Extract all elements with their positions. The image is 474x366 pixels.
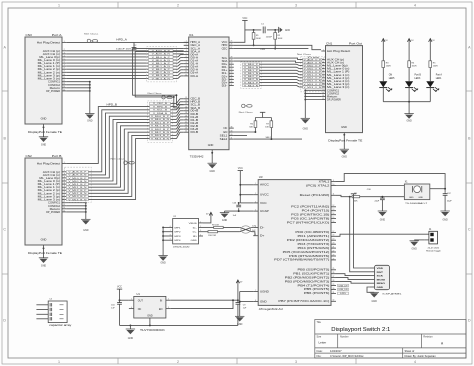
net label V_ML2_P (243, 75, 260, 78)
svg-text:HPD_B: HPD_B (107, 103, 118, 106)
power VCC U3 (238, 167, 243, 170)
svg-text:HPD: HPD (260, 49, 265, 51)
wire HPD_A from CN3 to IC1 (66, 41, 189, 43)
svg-text:D: D (3, 319, 6, 323)
svg-text:6: 6 (170, 226, 171, 228)
ground LEDs (404, 114, 413, 123)
svg-text:V_ML2_A_P: V_ML2_A_P (152, 68, 171, 71)
svg-text:V_ML1_B_P: V_ML1_B_P (151, 123, 170, 125)
net label V_ML1_O_P (303, 70, 323, 73)
svg-text:2: 2 (200, 226, 201, 228)
wire ICSP GND to ground (367, 287, 374, 292)
svg-text:8: 8 (255, 300, 256, 302)
wire MISO from PB3 (336, 282, 370, 284)
svg-text:12: 12 (63, 201, 65, 203)
svg-text:10: 10 (63, 74, 65, 76)
svg-text:V_ML1_P: V_ML1_P (244, 70, 259, 72)
ground Port B config (81, 219, 90, 232)
svg-text:PC4 (PCINT10): PC4 (PCINT10) (302, 210, 330, 213)
svg-text:2: 2 (255, 193, 256, 195)
wire D- to R9 (203, 226, 214, 228)
wire SCL_A drop (133, 49, 184, 105)
svg-text:50K: 50K (249, 127, 253, 129)
ground ICSP (370, 292, 379, 303)
svg-text:3: 3 (255, 201, 256, 203)
wire HPD_B from CN2 (66, 107, 149, 164)
svg-text:4: 4 (186, 50, 187, 52)
wire CN3 GND to ground (43, 124, 45, 137)
svg-text:U3: U3 (259, 175, 263, 179)
wire LED LED1 cathode (429, 88, 431, 102)
ground VCC rail (279, 27, 291, 33)
svg-text:13: 13 (185, 97, 187, 99)
svg-text:150R: 150R (412, 66, 417, 68)
wire CEC from IC1 (234, 48, 309, 50)
wire SEL2 (234, 138, 302, 140)
wire HPD IC1 to CN1 (234, 45, 321, 49)
svg-text:PC2 (PCINT11/AIN2): PC2 (PCINT11/AIN2) (291, 206, 330, 209)
svg-text:9: 9 (170, 239, 171, 241)
connector USB 47625-1020 (168, 216, 203, 248)
svg-text:V_ML0_A_P: V_ML0_A_P (152, 56, 171, 59)
net label V_ML0_O_N (303, 67, 323, 70)
svg-text:UVCC: UVCC (260, 194, 269, 197)
svg-text:2: 2 (177, 4, 179, 8)
svg-text:Reset (PC1/dW): Reset (PC1/dW) (300, 194, 330, 197)
svg-text:2: 2 (186, 44, 187, 46)
svg-text:Title: Title (317, 321, 322, 324)
svg-text:Revision: Revision (423, 336, 433, 339)
svg-text:6: 6 (186, 56, 187, 58)
svg-text:5: 5 (64, 58, 65, 60)
svg-text:D-: D- (260, 226, 265, 229)
svg-text:11: 11 (63, 77, 65, 79)
svg-text:MP4: MP4 (175, 240, 182, 242)
wire IC1 VCC riser (234, 21, 245, 43)
svg-text:10: 10 (333, 184, 335, 186)
svg-text:Net Class: Net Class (297, 53, 312, 56)
svg-text:LED5: LED5 (389, 78, 395, 80)
svg-text:28: 28 (231, 57, 233, 59)
wire VCC rail (245, 29, 261, 31)
harness Port B at IC1 (148, 101, 173, 142)
svg-text:PD2 (RXD1/AIN1/INT2): PD2 (RXD1/AIN1/INT2) (287, 239, 330, 242)
CN3 shield junction (43, 126, 45, 128)
net label V_SCL_B at IC1 (150, 109, 171, 112)
capacitor C37 (443, 194, 448, 196)
power 5V input (236, 280, 243, 283)
wire regulator ground rail (120, 324, 238, 326)
svg-text:31: 31 (333, 292, 335, 294)
svg-text:UGND: UGND (260, 290, 269, 293)
svg-text:V_ML3_O_N: V_ML3_O_N (304, 87, 323, 89)
svg-text:9: 9 (186, 65, 187, 67)
svg-text:R10 15R: R10 15R (208, 235, 216, 237)
svg-text:PB7 (PCINT7/OC.0A/OC.1C): PB7 (PCINT7/OC.0A/OC.1C) (278, 300, 329, 303)
connector CN1 Port Out (321, 41, 362, 132)
svg-text:Displayport Switch 2:1: Displayport Switch 2:1 (331, 327, 390, 333)
svg-text:35: 35 (231, 78, 233, 80)
svg-text:capacitor array: capacitor array (49, 324, 72, 327)
svg-text:D3-B: D3-B (191, 131, 199, 134)
wire SDA to CN1 (234, 61, 303, 62)
svg-text:GND: GND (41, 117, 47, 121)
svg-text:V_ML1_B_N: V_ML1_B_N (68, 187, 87, 189)
wire R1 stem (253, 30, 255, 33)
net label V_ML3_A_N (149, 77, 174, 80)
junction VCC rail R2 (274, 29, 276, 31)
net label V_ML0_A_N (149, 59, 174, 62)
wire CN2 CONFIG1/CONFIG2/Return to ground (66, 202, 87, 220)
svg-text:V_ML1_A_P: V_ML1_A_P (152, 62, 171, 65)
power VCC U1 output (117, 286, 122, 289)
capacitor C26 (236, 205, 241, 207)
svg-text:USB_DP: USB_DP (339, 285, 349, 287)
capacitor C36 (380, 198, 385, 200)
svg-text:22pF: 22pF (374, 201, 379, 203)
net label V_ML3_A_P (149, 74, 174, 77)
net label V_AUX_O_P (303, 58, 323, 61)
net label V_ML2_B_P at CN2 (66, 189, 88, 192)
svg-text:13: 13 (322, 92, 324, 94)
svg-text:13: 13 (63, 83, 65, 85)
svg-text:23: 23 (333, 254, 335, 256)
junction R2 CEC (274, 48, 276, 50)
svg-text:34: 34 (231, 75, 233, 77)
power 5V USB (209, 212, 212, 215)
LED LED1 (426, 74, 442, 92)
svg-text:V_ML2_O_N: V_ML2_O_N (304, 81, 323, 83)
svg-text:15: 15 (63, 210, 65, 212)
svg-text:11: 11 (185, 71, 187, 73)
wire crossover to U3 D+ (252, 232, 255, 236)
svg-text:GND: GND (191, 240, 198, 242)
svg-text:Letter: Letter (319, 341, 327, 345)
svg-text:2: 2 (64, 49, 65, 51)
wire VCC to U3 supplies (239, 171, 253, 203)
svg-text:30: 30 (333, 288, 335, 290)
svg-text:V_HPD_B: V_HPD_B (153, 107, 168, 109)
svg-text:7: 7 (323, 73, 324, 75)
svg-text:VCC: VCC (242, 17, 247, 20)
wire USB shield to ground (162, 226, 168, 255)
wire R7 to SEL2 (270, 128, 272, 139)
svg-text:CN2: CN2 (26, 154, 33, 158)
capacitor C1 (263, 27, 265, 34)
svg-text:7: 7 (186, 59, 187, 61)
svg-text:PC5 (PCINT9/OC.1B): PC5 (PCINT9/OC.1B) (291, 214, 330, 217)
svg-text:Net Class: Net Class (239, 111, 254, 114)
svg-text:17: 17 (333, 231, 335, 233)
net label V_AUX_B_N at CN2 (66, 174, 88, 177)
svg-text:15: 15 (322, 98, 324, 100)
wire R5 top (429, 42, 431, 61)
wire R9 to crossover (223, 226, 240, 228)
svg-text:V_ML0_O_P: V_ML0_O_P (304, 65, 323, 67)
ground USB (158, 256, 167, 265)
net label V_ML3_N (243, 84, 260, 87)
svg-text:PD6 (RTS/AIN5/INT6): PD6 (RTS/AIN5/INT6) (289, 255, 330, 258)
net label V_ML0_B_P at IC1 (150, 115, 171, 118)
ground regulator (126, 329, 135, 340)
ground C36 (378, 211, 387, 221)
svg-text:3: 3 (186, 47, 187, 49)
svg-text:GND: GND (341, 125, 347, 129)
svg-text:32: 32 (231, 69, 233, 71)
svg-text:V_AUX_B_N: V_AUX_B_N (68, 174, 87, 177)
svg-text:36: 36 (231, 81, 233, 83)
svg-text:22: 22 (333, 250, 335, 252)
svg-text:ICSP-ATMEL: ICSP-ATMEL (383, 293, 403, 296)
svg-text:V_ML2_N: V_ML2_N (244, 79, 259, 81)
ground below CN2 (39, 258, 48, 268)
svg-text:4: 4 (131, 307, 132, 309)
svg-text:100K: 100K (278, 38, 283, 40)
svg-text:SEL2: SEL2 (220, 138, 228, 141)
svg-text:USB_DN: USB_DN (339, 289, 349, 291)
power 5V LED5 (382, 39, 389, 42)
svg-text:PD1 (AIN0/INT1): PD1 (AIN0/INT1) (298, 235, 330, 238)
resistor R5 (429, 61, 432, 68)
net label V_ML3_B_P at CN2 (66, 195, 88, 198)
svg-text:Port B: Port B (415, 74, 422, 77)
CN1 shield junction (343, 134, 345, 136)
svg-text:6: 6 (323, 70, 324, 72)
svg-text:38: 38 (231, 127, 233, 129)
svg-text:18: 18 (333, 235, 335, 237)
svg-text:22pF: 22pF (447, 201, 452, 203)
svg-text:VDD: VDD (377, 268, 384, 270)
svg-text:150R: 150R (433, 66, 438, 68)
svg-text:XTAL1: XTAL1 (319, 180, 331, 183)
wire ground stem (129, 325, 131, 329)
title block (315, 320, 466, 359)
net label V_ML3_B_N at CN2 (66, 198, 88, 201)
wire U1 GND stem (149, 318, 151, 325)
svg-text:1: 1 (255, 183, 256, 185)
svg-text:VCC: VCC (238, 167, 243, 170)
svg-text:21: 21 (185, 121, 187, 123)
svg-text:18: 18 (185, 112, 187, 114)
svg-text:Size: Size (317, 336, 322, 339)
svg-text:IN: IN (160, 300, 163, 303)
svg-text:Net Class: Net Class (84, 33, 99, 36)
svg-text:VCC: VCC (117, 286, 122, 289)
svg-text:V_CEC_B: V_CEC_B (153, 103, 168, 105)
wire VBUS to 5V (203, 216, 211, 223)
svg-text:PD5 (XCK/AIN4/PCINT12): PD5 (XCK/AIN4/PCINT12) (283, 251, 330, 254)
svg-text:V_ML1_B_P: V_ML1_B_P (68, 184, 87, 186)
svg-text:20: 20 (185, 118, 187, 120)
svg-text:28: 28 (333, 280, 335, 282)
junction EN (254, 131, 256, 133)
svg-text:14: 14 (185, 100, 187, 102)
svg-text:DisplayPort Female TE: DisplayPort Female TE (28, 251, 62, 255)
wire IC1 GND to ground (211, 150, 213, 164)
wire C10 stem (119, 300, 121, 302)
net label V_ML3_P (243, 81, 260, 84)
svg-text:3: 3 (323, 61, 324, 63)
svg-text:1: 1 (186, 41, 187, 43)
ground UCAP (220, 213, 229, 222)
wire SCK from PB1 (336, 274, 370, 276)
svg-text:32: 32 (333, 300, 335, 302)
svg-text:Port A: Port A (436, 74, 443, 77)
svg-text:UCAP: UCAP (260, 210, 269, 213)
wire Reset to R8 (336, 195, 352, 196)
svg-text:100K: 100K (256, 38, 261, 40)
wire C9 stem (237, 300, 239, 302)
svg-text:GND: GND (342, 156, 348, 159)
svg-text:GND: GND (222, 219, 228, 222)
svg-text:V_ML1_O_P: V_ML1_O_P (304, 72, 323, 74)
svg-text:IC1: IC1 (189, 33, 194, 37)
svg-text:PD4 (INT5/AIN3): PD4 (INT5/AIN3) (298, 247, 330, 250)
net label V_ML2_O_N (303, 80, 323, 83)
net label V_ML0_B_N at CN2 (66, 180, 88, 183)
svg-text:PB2 (PDI/MOSI/PCINT2): PB2 (PDI/MOSI/PCINT2) (285, 276, 330, 279)
svg-text:4: 4 (323, 64, 324, 66)
net label V_AUX_A_P (149, 50, 174, 53)
svg-text:MP2: MP2 (175, 232, 182, 234)
ground Port A config (85, 114, 94, 123)
svg-text:TS-16000MAO-T: TS-16000MAO-T (405, 202, 428, 205)
junction rail ground stem (129, 324, 131, 326)
svg-text:DisplayPort Female TE: DisplayPort Female TE (328, 138, 362, 142)
op U3 ATmega16U2 (253, 175, 336, 311)
net label V_ML1_B_P at CN2 (66, 183, 88, 186)
wire bundle CN3 lanes to Port A harness (66, 51, 148, 79)
svg-text:PB0 (SS/PCINT0): PB0 (SS/PCINT0) (298, 269, 330, 272)
wire C37 stem (444, 192, 446, 195)
wire Port A harness to IC1 (173, 51, 184, 79)
wire IN from 5V (171, 299, 238, 301)
net label V_ML2_N (243, 78, 260, 81)
svg-text:27: 27 (231, 47, 233, 49)
resistor R2 (274, 33, 277, 40)
wire UCAP (225, 210, 254, 212)
svg-text:16: 16 (185, 106, 187, 108)
net class directive aux bus (148, 92, 173, 99)
svg-text:Hot Plug Detect: Hot Plug Detect (327, 49, 351, 53)
capacitor array C11-C14 (36, 299, 72, 328)
svg-text:V_SDA_B: V_SDA_B (153, 112, 168, 115)
svg-text:GND: GND (303, 127, 309, 130)
junction EN tie (232, 299, 234, 301)
svg-text:8: 8 (186, 62, 187, 64)
svg-text:V_ML0_B_P: V_ML0_B_P (68, 178, 87, 180)
svg-text:4: 4 (64, 55, 65, 57)
svg-text:10: 10 (63, 195, 65, 197)
svg-text:GND: GND (418, 197, 423, 199)
svg-text:CN3: CN3 (26, 33, 33, 37)
junction SEL2 (270, 138, 272, 140)
svg-text:D: D (468, 319, 471, 323)
capacitor C10 (117, 303, 122, 305)
svg-text:19: 19 (185, 115, 187, 117)
harness Port Out at CN1 (301, 57, 325, 92)
power VCC ICSP (351, 193, 356, 195)
wire LED rail to ground (408, 102, 410, 114)
svg-text:7: 7 (255, 290, 256, 292)
net label V_ML0_A_P (149, 56, 174, 59)
svg-text:DisplayPort Female TE: DisplayPort Female TE (28, 130, 62, 134)
svg-text:12: 12 (322, 89, 324, 91)
svg-text:16: 16 (333, 221, 335, 223)
svg-text:8: 8 (170, 234, 171, 236)
wire Port B harness boxes to IC1 (171, 99, 184, 139)
svg-text:D-: D- (193, 227, 197, 229)
svg-text:R9 15R: R9 15R (212, 224, 219, 226)
junction C36 (381, 196, 383, 198)
svg-text:9: 9 (333, 180, 334, 182)
svg-text:2: 2 (177, 360, 179, 364)
svg-text:3: 3 (295, 4, 297, 8)
net label V_ML0_N (243, 66, 260, 69)
svg-text:GND: GND (406, 120, 412, 123)
svg-text:22-27-2021: 22-27-2021 (428, 247, 440, 249)
svg-text:Port A: Port A (52, 33, 62, 37)
svg-text:C:\Users\..\DP_MUX.SchDoc: C:\Users\..\DP_MUX.SchDoc (330, 354, 364, 358)
wire R2 to CEC (274, 40, 276, 49)
svg-text:31: 31 (231, 66, 233, 68)
svg-text:C: C (468, 228, 471, 232)
svg-text:NC: NC (224, 127, 228, 130)
power 5V LED3 (407, 39, 414, 42)
svg-text:1: 1 (64, 41, 65, 43)
svg-text:File:: File: (317, 354, 322, 358)
LED LED5 (379, 75, 395, 92)
net label UID (338, 292, 349, 295)
svg-text:SCK: SCK (377, 276, 384, 278)
wire VCC stem U1 (119, 289, 121, 300)
wire EN tie (171, 300, 233, 308)
wire MOSI from PB2 (336, 278, 370, 280)
wire CN2 GND to ground (43, 245, 45, 258)
svg-text:22: 22 (185, 125, 187, 127)
svg-text:V_ML3_B_N: V_ML3_B_N (68, 199, 87, 201)
svg-text:GND: GND (160, 262, 166, 265)
svg-text:Number: Number (340, 336, 349, 339)
svg-text:Port Out: Port Out (349, 41, 362, 45)
svg-text:9: 9 (64, 71, 65, 73)
resistor R3 (382, 61, 385, 68)
net label V_ML2_O_P (303, 77, 323, 80)
power VCC IC1 (242, 17, 247, 20)
wire XTAL2 to crystal (336, 185, 404, 187)
net label V_ML2_A_N (149, 71, 174, 74)
wire OUT to VCC (120, 299, 129, 301)
junction UCAP C26 (238, 210, 240, 212)
svg-text:VCC: VCC (260, 202, 267, 205)
resistor R1 (252, 33, 255, 40)
svg-text:V_ML1_A_N: V_ML1_A_N (152, 65, 171, 68)
wire C10 to rail (119, 304, 121, 325)
svg-text:11: 11 (322, 85, 324, 87)
wire RST to ICSP (350, 197, 370, 272)
svg-text:V_ML0_A_N: V_ML0_A_N (152, 59, 171, 62)
svg-text:PD7 (CTS/HWB/AIN6/T0/INT7): PD7 (CTS/HWB/AIN6/T0/INT7) (274, 259, 329, 262)
wire D+ to R10 (203, 231, 208, 233)
svg-text:47625-1020: 47625-1020 (173, 247, 191, 249)
wire CN1 GND to ground (343, 133, 345, 150)
svg-text:10: 10 (322, 82, 324, 84)
wire R4 to LED (408, 68, 410, 81)
junction IN (237, 299, 239, 301)
svg-text:1: 1 (200, 221, 201, 223)
net label V_HPD_B at IC1 (150, 105, 171, 108)
wire R6 to EN (254, 128, 256, 132)
